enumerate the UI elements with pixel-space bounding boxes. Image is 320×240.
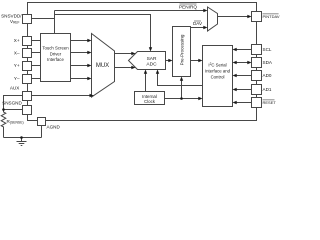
mux MUX <box>92 34 115 98</box>
wire TSDI to MUX row4 <box>71 78 89 80</box>
wire TSDI to MUX row2 <box>71 52 89 54</box>
wire ADC to Pre-Processing <box>166 60 169 62</box>
wire PENIRQ net <box>55 10 204 12</box>
wire SNSVDD vertical riser into TSDI <box>54 11 56 34</box>
pin AD1 <box>252 85 262 95</box>
svg-text:X+: X+ <box>14 38 20 43</box>
wire X+ stub <box>32 40 41 42</box>
arrowhead TSDI row4 into MUX <box>87 77 91 80</box>
svg-text:SAR: SAR <box>147 56 157 62</box>
junction ground tap <box>20 136 23 139</box>
arrowhead DAV into 2:1 mux <box>203 26 207 29</box>
pin SNSVDD/VREF <box>23 15 32 24</box>
wire RESET row <box>237 102 252 104</box>
block Internal Clock <box>135 92 165 105</box>
arrowhead clock into ADC bottom <box>144 70 147 74</box>
svg-text:Interface and: Interface and <box>205 69 231 74</box>
wire X- stub <box>32 52 41 54</box>
pin RESET <box>252 98 262 108</box>
svg-text:VREF: VREF <box>10 19 20 25</box>
wire Y- stub <box>32 78 41 80</box>
ground symbol bars <box>17 141 27 143</box>
arrowhead Pre-Processing into I2C <box>198 59 202 62</box>
svg-text:Clock: Clock <box>144 99 156 104</box>
block I2C Serial Interface and Control <box>203 46 233 107</box>
arrowhead clock into I2C left <box>198 97 202 100</box>
wire Pre-Processing to I2C <box>191 60 199 62</box>
wire clock branch to Pre-Processing <box>181 78 183 99</box>
arrowhead TSDI row1 into MUX <box>87 39 91 42</box>
wire I2C control rail to ADC <box>158 71 203 86</box>
arrowhead control rail into ADC bottom <box>156 70 159 74</box>
ground symbol stem <box>21 138 23 142</box>
arrowhead mux2 into PINTDAV <box>247 15 251 18</box>
junction resistor top node <box>2 108 5 111</box>
block Touch Screen Driver Interface <box>41 34 71 82</box>
wire SNSVDD to riser <box>32 18 55 20</box>
wire DAV net <box>191 27 204 29</box>
wire SDA row <box>237 62 249 64</box>
wire AD0 row <box>237 75 252 77</box>
wire MUX to ADC lower <box>115 67 132 69</box>
wire AUX external to resistor node <box>4 96 23 110</box>
resistor R(SENSE) <box>1 110 6 138</box>
wire bottom ground run <box>4 137 42 139</box>
wire TSDI to MUX row3 <box>71 65 89 67</box>
arrowhead TSDI row2 into MUX <box>87 51 91 54</box>
pin AGND <box>38 118 46 126</box>
svg-text:RESET: RESET <box>263 100 277 105</box>
arrowhead MUX lower into ADC <box>131 66 135 69</box>
arrowhead AD1 into I2C <box>233 88 237 91</box>
svg-text:AD1: AD1 <box>263 87 272 92</box>
arrowhead clock branch into Pre-Processing bottom <box>180 77 183 81</box>
svg-text:Driver: Driver <box>50 51 62 56</box>
svg-text:MUX: MUX <box>96 63 109 69</box>
arrowhead TSDI row3 into MUX <box>87 64 91 67</box>
svg-text:SDA: SDA <box>263 60 273 65</box>
arrowhead AUX into MUX <box>90 94 94 97</box>
svg-text:AGND: AGND <box>47 125 61 130</box>
wire Internal Clock to ADC <box>145 71 147 92</box>
svg-text:X–: X– <box>14 51 20 56</box>
wire AGND drop <box>41 126 43 138</box>
wire AD1 row <box>237 89 252 91</box>
wire 2:1 mux to PINTDAV <box>218 16 248 18</box>
arrowhead AD0 into I2C <box>233 74 237 77</box>
pin X+ <box>23 37 32 46</box>
chip boundary U1 <box>28 3 257 121</box>
wire SNSGND external <box>4 109 23 111</box>
arrowhead SDA into I2C <box>233 61 237 64</box>
svg-text:Y+: Y+ <box>14 63 20 68</box>
svg-text:ADC: ADC <box>146 61 157 67</box>
svg-text:SNSGND: SNSGND <box>2 100 22 105</box>
arrowhead SDA into pin <box>247 61 251 64</box>
wire SCL row <box>237 49 252 51</box>
wire Internal Clock to I2C <box>165 98 199 100</box>
wire MUX to ADC upper <box>115 53 132 55</box>
wire TSDI to MUX row1 <box>71 40 89 42</box>
pin X- <box>23 49 32 58</box>
svg-text:SCL: SCL <box>263 47 272 52</box>
svg-text:Interface: Interface <box>47 57 64 62</box>
adc SAR ADC <box>129 52 166 70</box>
pin AD0 <box>252 71 262 81</box>
svg-text:PENIRQ: PENIRQ <box>179 4 197 9</box>
arrowhead MUX upper into ADC <box>131 52 135 55</box>
junction clock branch <box>180 97 183 100</box>
svg-text:PINTDAV: PINTDAV <box>263 14 280 19</box>
arrowhead PENIRQ into 2:1 mux <box>203 9 207 12</box>
pin PINTDAV <box>252 12 262 22</box>
svg-text:AD0: AD0 <box>263 73 272 78</box>
pin AUX <box>23 92 32 101</box>
arrowhead SCL into I2C <box>233 48 237 51</box>
pin SCL <box>252 45 262 55</box>
arrowhead RESET into I2C <box>233 101 237 104</box>
block Pre-Processing <box>173 27 191 77</box>
wire Y+ stub <box>32 65 41 67</box>
wire AUX to MUX <box>32 95 91 97</box>
svg-text:Y–: Y– <box>14 76 20 81</box>
pin SDA <box>252 58 262 68</box>
wire VREF rail to SAR ADC <box>55 15 151 49</box>
svg-text:R(SENSE): R(SENSE) <box>7 119 24 124</box>
svg-text:Touch Screen: Touch Screen <box>42 45 69 50</box>
pin SNSGND <box>23 106 32 115</box>
mux 2:1 PENIRQ/DAV select <box>208 7 218 31</box>
pin Y+ <box>23 62 32 71</box>
arrowhead ADC into Pre-Processing <box>168 59 172 62</box>
pin Y- <box>23 75 32 84</box>
svg-text:DAV: DAV <box>193 21 203 26</box>
svg-text:AUX: AUX <box>10 86 19 91</box>
arrowhead VREF into ADC top <box>149 47 152 51</box>
svg-text:Control: Control <box>211 75 225 80</box>
svg-text:Pre-Processing: Pre-Processing <box>179 34 184 65</box>
svg-text:I2C Serial: I2C Serial <box>208 62 226 68</box>
